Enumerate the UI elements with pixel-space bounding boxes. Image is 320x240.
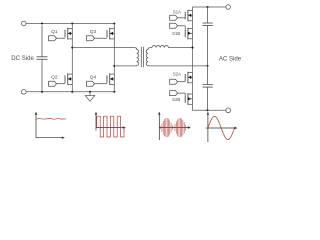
wire S1A source to S1B drain <box>192 21 194 29</box>
gate tag S1B <box>170 23 186 30</box>
transformer T1 core <box>141 47 143 67</box>
wire top rail DC+ <box>26 23 114 25</box>
node top rail / Q3 drain <box>113 22 115 24</box>
AC output terminal bottom <box>226 108 231 113</box>
wire bottom rail DC- <box>26 91 114 93</box>
inductor L1 <box>152 46 168 48</box>
gate tag S1A <box>170 15 186 20</box>
wire node B to primary bottom <box>114 65 134 67</box>
waveform 3 axes (modulated) <box>158 112 191 140</box>
wire S2A source to S2B drain <box>192 83 194 94</box>
svg-text:AC Side: AC Side <box>219 55 242 62</box>
transistor S1A <box>185 10 192 22</box>
capacitor C1 DC link <box>37 26 48 92</box>
svg-text:S1A: S1A <box>173 9 181 14</box>
svg-text:S2B: S2B <box>172 97 180 102</box>
svg-text:Q1: Q1 <box>51 29 58 35</box>
ground <box>85 92 95 101</box>
wire S1A drain to top rail <box>193 7 227 11</box>
transistor Q1 <box>65 28 72 40</box>
wire node C to S2A drain <box>192 48 194 73</box>
wire Q2 source <box>71 84 73 91</box>
node top rail / C2 <box>206 6 208 8</box>
node D rail / secondary <box>206 65 208 67</box>
waveform 1 trace DC with ripple <box>36 118 66 121</box>
wire secondary top to L1 <box>150 47 152 49</box>
svg-text:DC Side: DC Side <box>11 55 34 62</box>
node C switch midpoint <box>191 47 193 49</box>
node bottom rail / Q2 source <box>71 91 73 93</box>
wire Q1 source to node A <box>71 39 73 48</box>
wire Q3 source to node B <box>113 39 115 66</box>
node top rail / C1 <box>41 22 43 24</box>
wire node B to Q4 drain <box>113 66 115 74</box>
waveform 2 trace HF square wave <box>97 116 124 137</box>
node bottom rail / C1 <box>41 91 43 93</box>
wire L1 to node C <box>168 47 192 49</box>
transistor S2A <box>185 72 192 84</box>
waveform 4 trace sine <box>208 116 235 139</box>
waveform 1 axes (DC) <box>35 112 65 139</box>
waveform 4 axes (sine) <box>206 112 238 142</box>
svg-text:S2A: S2A <box>173 71 181 76</box>
waveform 2 axes (HF square) <box>95 112 126 131</box>
gate tag Q1 <box>49 36 65 41</box>
node bottom rail / ground <box>89 91 91 93</box>
gate tag S2B <box>170 91 186 96</box>
transistor Q3 <box>107 28 114 40</box>
capacitor C3 AC filter bottom <box>203 66 213 110</box>
svg-text:Q2: Q2 <box>51 75 58 81</box>
waveform 3 trace AM carrier <box>161 118 186 137</box>
wire Q4 source <box>113 84 115 91</box>
svg-text:Q3: Q3 <box>90 29 97 35</box>
transformer T1 secondary winding <box>146 48 150 66</box>
wire node A to primary top <box>72 47 134 49</box>
svg-text:Q4: Q4 <box>90 75 97 81</box>
wire secondary bottom to node D <box>150 65 207 67</box>
AC output terminal top <box>226 5 231 10</box>
node bottom rail / C3 <box>206 109 208 111</box>
gate tag Q2 <box>49 81 65 86</box>
gate tag Q4 <box>87 81 107 86</box>
svg-text:S1B: S1B <box>172 31 180 36</box>
gate tag S2A <box>170 79 186 84</box>
capacitor C2 AC filter top <box>203 7 213 66</box>
DC input terminal top <box>22 21 27 26</box>
transistor S2B <box>185 93 192 105</box>
wire S1B source to node C <box>192 39 194 48</box>
wire Q1 drain <box>71 24 73 29</box>
DC input terminal bottom <box>22 90 27 95</box>
node bottom rail / Q4 source <box>113 91 115 93</box>
node A Q1-Q2 midpoint <box>71 47 73 49</box>
wire Q3 drain <box>113 24 115 29</box>
transistor Q2 <box>65 73 72 85</box>
transformer T1 primary winding <box>135 48 139 66</box>
node B Q3-Q4 midpoint <box>113 65 115 67</box>
gate tag Q3 <box>87 36 107 41</box>
wire S2B source to bottom rail <box>193 104 227 110</box>
transistor Q4 <box>107 73 114 85</box>
node top rail / Q1 drain <box>71 22 73 24</box>
wire node A to Q2 drain <box>71 48 73 75</box>
transistor S1B <box>185 28 192 40</box>
